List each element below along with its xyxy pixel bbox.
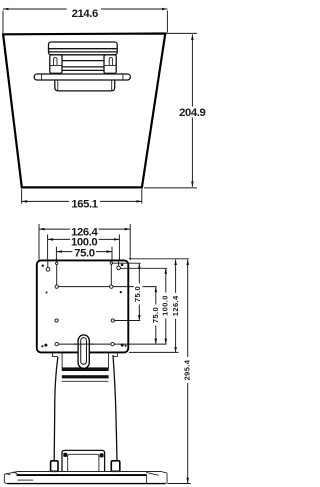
tiny hole top-right column <box>110 262 112 264</box>
svg-text:204.9: 204.9 <box>179 107 205 119</box>
hole row4 right <box>111 342 114 345</box>
base right end edge <box>164 473 167 484</box>
clamp cap <box>49 42 118 55</box>
hole row3 left <box>55 319 58 322</box>
construction line left column <box>56 261 58 287</box>
column right leg top tab <box>113 353 118 356</box>
hole row line y=320.5 to dim A <box>113 320 140 322</box>
dimension 126.4 vertical D <box>171 260 180 353</box>
column left leg top tab <box>53 353 58 356</box>
column left leg inner edge <box>61 353 63 368</box>
hole row3 right <box>111 319 114 322</box>
base step slant right <box>146 472 159 475</box>
dimension 75.0 vertical B <box>151 287 160 345</box>
trapezoid base outline (front view) <box>3 34 165 188</box>
svg-text:126.4: 126.4 <box>171 295 180 316</box>
corner dots bottom-right <box>125 345 127 347</box>
foot pad right <box>111 461 120 472</box>
handle outer <box>62 450 105 471</box>
ext row line y=263.2 to dim A <box>111 262 140 264</box>
construction line to 100-hole left <box>47 261 49 269</box>
hole 100 pattern top-right <box>117 266 121 270</box>
svg-text:295.4: 295.4 <box>183 359 192 380</box>
dimension 75.0 vertical A <box>133 263 143 320</box>
hole row line y=286.6 to dim B <box>57 286 157 288</box>
corner dot top-left <box>42 265 44 267</box>
base left end edge <box>4 474 7 483</box>
column right leg inner edge <box>108 353 110 368</box>
ext line base bottom right <box>167 483 190 485</box>
dimension 214.6 top width <box>3 6 167 33</box>
base front top edge thick <box>17 474 147 476</box>
handle pin left <box>63 453 67 457</box>
svg-text:75.0: 75.0 <box>133 286 142 302</box>
base chamfer tick 2 <box>13 472 17 474</box>
hole row4 left <box>55 342 58 345</box>
dimension 75.0 hole spacing horizontal <box>56 247 112 261</box>
clamp flange bar with wings <box>34 74 130 80</box>
column left leg outer edge <box>54 357 58 461</box>
bracket band bar 2 <box>62 375 109 378</box>
ext line plate bottom right <box>129 351 179 353</box>
tiny hole top-left column <box>56 262 58 264</box>
hole 100 pattern top-left <box>46 267 50 271</box>
handle inner <box>68 454 99 471</box>
corner dot top-right <box>121 264 124 267</box>
base short mid line left <box>18 479 34 481</box>
clamp right post <box>104 55 116 73</box>
hole row2 right <box>110 285 113 288</box>
column right leg outer edge <box>113 355 117 461</box>
cable slot inner <box>81 338 87 365</box>
construction line to 100-hole right <box>118 261 120 268</box>
clamp bottom knob <box>55 80 115 91</box>
dimension 100.0 vertical C <box>161 268 170 344</box>
dimension 126.4 plate width <box>39 224 130 260</box>
svg-text:165.1: 165.1 <box>71 198 97 210</box>
base top rear edge <box>5 472 167 475</box>
clamp slats <box>62 61 104 71</box>
handle pin right <box>100 453 104 457</box>
bracket band lower thin line <box>62 380 108 382</box>
mid dot right <box>120 291 122 293</box>
base step vertical <box>146 474 148 483</box>
foot pad left <box>51 461 58 472</box>
VESA plate outline <box>37 260 129 352</box>
svg-text:100.0: 100.0 <box>161 295 170 316</box>
hole row2 left <box>55 285 58 288</box>
hole row line y=344.1 to dim C <box>57 343 167 345</box>
bracket band bar 1 <box>62 367 109 371</box>
svg-text:75.0: 75.0 <box>151 307 160 323</box>
svg-text:214.6: 214.6 <box>72 8 98 20</box>
mid dot left <box>46 292 48 294</box>
construction line right column <box>110 261 112 287</box>
base bottom edge <box>7 483 166 485</box>
ext line plate top to right dims <box>129 258 189 260</box>
ext row line y=268.3 to dim C <box>120 267 167 269</box>
clamp left post <box>50 55 62 73</box>
base chamfer tick 1 <box>6 473 11 475</box>
dimension 204.9 side height <box>144 33 207 188</box>
cable slot outer <box>78 335 89 368</box>
dimension 100.0 hole spacing horizontal <box>48 234 120 264</box>
corner dots bottom-left <box>41 345 43 347</box>
svg-text:75.0: 75.0 <box>74 248 95 260</box>
dimension 165.1 bottom width <box>22 189 142 210</box>
hole row line y=344.1 over slot <box>74 343 94 345</box>
dimension 295.4 vertical E <box>183 260 192 484</box>
